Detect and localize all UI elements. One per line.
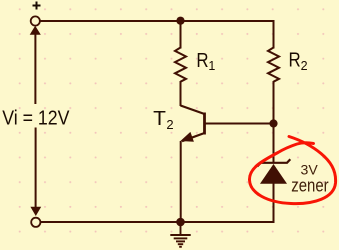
resistor R2 (268, 48, 279, 82)
wire Vi upper segment (34, 34, 36, 105)
source arrow up (30, 26, 41, 35)
red annotation circle around zener (249, 137, 335, 204)
plus polarity label (33, 2, 41, 10)
wire Vi lower segment (35, 128, 37, 209)
wire R1 top lead (180, 21, 182, 49)
wire R1 bottom lead (180, 81, 182, 106)
svg-text:2: 2 (301, 59, 308, 73)
wire R2 bottom lead (273, 81, 275, 124)
svg-text:R: R (289, 50, 301, 72)
terminal circle (bottom input) (31, 218, 40, 227)
terminal circle (top input) (31, 16, 40, 25)
wire zener bottom lead and bottom rail (40, 184, 273, 223)
svg-text:1: 1 (208, 59, 215, 73)
ground (170, 222, 190, 247)
wire zener top lead (273, 124, 275, 164)
wire top rail (41, 21, 274, 49)
resistor R1 (175, 48, 186, 82)
junction node (top rail / R1 branch) (176, 17, 184, 25)
wire emitter lead (180, 141, 182, 222)
svg-text:Vi = 12V: Vi = 12V (2, 107, 70, 129)
svg-text:2: 2 (166, 117, 173, 132)
wire base lead (205, 123, 274, 125)
svg-text:T: T (153, 107, 166, 130)
junction node (ground) (176, 218, 185, 227)
svg-text:R: R (196, 50, 208, 72)
junction node (base / zener) (269, 119, 277, 127)
svg-text:zener: zener (291, 174, 328, 195)
transistor T2 (180, 106, 204, 142)
zener diode (257, 159, 290, 184)
source arrow down (30, 207, 41, 216)
